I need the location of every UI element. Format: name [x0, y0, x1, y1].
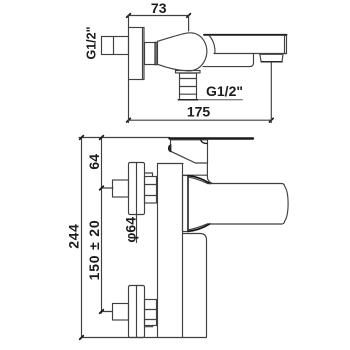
- extension line right of 73: [188, 16, 190, 32]
- body left edge (bottom view): [157, 164, 159, 338]
- svg-text:G1/2": G1/2": [206, 83, 243, 99]
- spout base rim (bottom view): [183, 176, 189, 232]
- lower union nut neck: [145, 326, 153, 327]
- aerator (top view): [260, 54, 283, 62]
- handle base collar (bottom view): [171, 140, 208, 163]
- lower union nut: [145, 300, 157, 326]
- upper wall pipe: [113, 180, 129, 197]
- upper union nut: [145, 177, 157, 204]
- body bottom edge + extension (bottom view): [81, 337, 207, 339]
- handle lever (bottom view): [170, 137, 254, 139]
- lower wall flange: [129, 286, 145, 338]
- body lower ledge (bottom view): [183, 234, 207, 338]
- svg-text:φ64: φ64: [123, 217, 139, 243]
- spout base lower curve: [188, 224, 210, 232]
- spout top edge (top view): [204, 34, 287, 36]
- dimension 73 line: [127, 14, 191, 18]
- top extension line (bottom view): [79, 137, 170, 139]
- body shoulder (bottom view): [207, 164, 212, 184]
- lever underside curve: [201, 140, 208, 144]
- seal ring: [155, 42, 158, 65]
- svg-text:244: 244: [66, 224, 82, 249]
- dimension 175 line: [127, 118, 273, 122]
- extension line right of 175: [270, 62, 272, 122]
- body right edge (bottom view): [182, 164, 184, 338]
- body top edge (bottom view): [158, 163, 184, 165]
- shower outlet collar (top view): [176, 71, 201, 73]
- extension line left of 175: [128, 80, 130, 122]
- spout bottom edge (top view): [214, 53, 287, 55]
- handle grip notch: [169, 145, 171, 152]
- svg-text:150 ± 20: 150 ± 20: [86, 220, 102, 281]
- svg-text:64: 64: [86, 154, 102, 170]
- spout end cap (top view): [285, 36, 287, 54]
- upper union nut neck: [145, 173, 153, 177]
- spout underside step: [203, 54, 254, 67]
- lower wall pipe: [113, 304, 129, 321]
- upper flange edge line: [136, 163, 138, 215]
- spout base upper curve: [188, 176, 210, 184]
- shower outlet threaded block (top view): [178, 73, 198, 100]
- svg-text:73: 73: [151, 0, 167, 16]
- extension line left of 73: [128, 16, 130, 28]
- dimension 244 line: [80, 136, 84, 340]
- mixer body (top view, egg shape): [158, 33, 207, 71]
- svg-text:G1/2": G1/2": [85, 26, 99, 59]
- wall pipe nipple (top view): [102, 37, 129, 55]
- phi64 leader line: [136, 215, 138, 243]
- dimension chain line 64 and 150: [100, 136, 104, 314]
- upper wall flange: [129, 163, 145, 215]
- label underline leader: [198, 99, 243, 101]
- spout slab (bottom view): [210, 184, 288, 225]
- spout junction fillet (top view): [209, 35, 215, 53]
- lower flange edge line: [136, 286, 138, 338]
- wall flange (top view): [129, 28, 145, 80]
- body connector (top view): [145, 43, 156, 65]
- body shelf line (bottom view): [183, 174, 208, 176]
- lower mount axis stub: [102, 311, 113, 313]
- upper mount axis stub: [102, 187, 114, 189]
- svg-text:175: 175: [187, 103, 211, 119]
